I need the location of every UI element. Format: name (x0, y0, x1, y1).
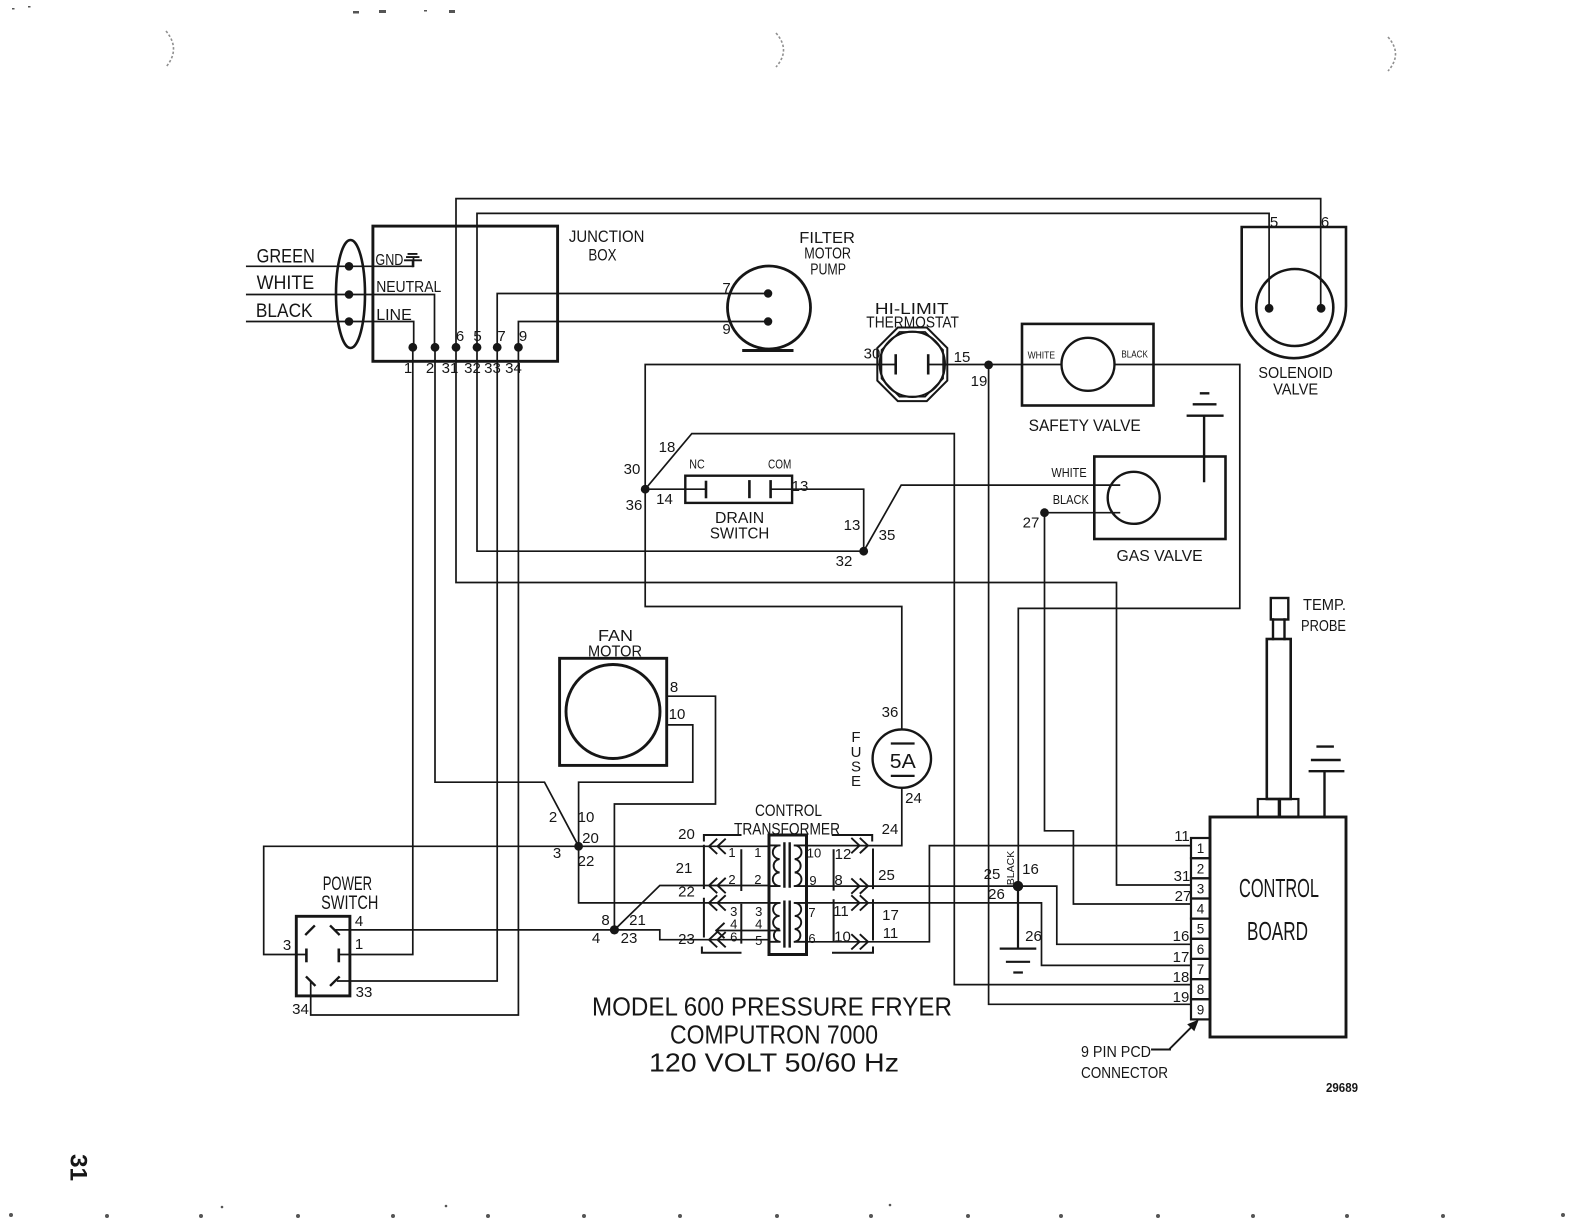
svg-text:WHITE: WHITE (1051, 466, 1086, 480)
svg-text:25: 25 (878, 867, 895, 884)
svg-text:9: 9 (722, 321, 730, 338)
svg-text:33: 33 (484, 360, 501, 377)
chevrons wire 17 (852, 896, 868, 910)
svg-text:9: 9 (809, 873, 816, 888)
svg-text:CONNECTOR: CONNECTOR (1081, 1065, 1168, 1082)
connector bars left outer (703, 846, 705, 937)
svg-text:13: 13 (792, 478, 809, 495)
wire 25 (transformer pin 9 to node 16) (807, 885, 1019, 887)
svg-text:34: 34 (292, 1001, 309, 1018)
scan specks top (353, 11, 359, 14)
svg-text:BLACK: BLACK (1053, 493, 1090, 507)
terminal 1 (408, 343, 417, 352)
scan dots bottom row (9, 1213, 13, 1217)
svg-text:32: 32 (836, 553, 853, 570)
svg-text:COM: COM (768, 457, 791, 472)
svg-text:9 PIN PCD: 9 PIN PCD (1081, 1044, 1151, 1061)
svg-text:BLACK: BLACK (1121, 350, 1148, 361)
svg-text:22: 22 (578, 853, 595, 870)
chevrons wire 24 (852, 839, 868, 853)
svg-text:FAN: FAN (598, 628, 633, 645)
chevrons wire 20 (709, 839, 725, 853)
safety valve box (1022, 324, 1154, 406)
wire 27 (gas valve black to control board pin 4) (1045, 513, 1192, 904)
wire 32 (terminal 32 to node 32) (477, 347, 864, 551)
svg-text:10: 10 (578, 809, 595, 826)
fuse circle (873, 729, 931, 787)
svg-text:5: 5 (1197, 922, 1205, 937)
svg-text:1: 1 (355, 936, 363, 953)
node 27 (1040, 508, 1049, 517)
svg-text:MOTOR: MOTOR (804, 246, 851, 263)
wire green (cable to gnd) (247, 259, 414, 267)
power switch box (296, 916, 350, 996)
scan artifact arc 2 (776, 33, 784, 67)
svg-text:JUNCTION: JUNCTION (569, 228, 645, 246)
svg-text:CONTROL: CONTROL (1239, 873, 1319, 903)
hi-limit pin bar right (927, 356, 930, 374)
wire line (cable to terminal 1) (247, 321, 349, 323)
svg-text:DRAIN: DRAIN (715, 510, 764, 527)
connector bars left inner (740, 850, 742, 942)
svg-text:14: 14 (656, 491, 673, 508)
svg-text:16: 16 (1173, 928, 1190, 945)
svg-text:9: 9 (519, 328, 527, 345)
svg-text:30: 30 (624, 461, 641, 478)
control transformer core box (769, 835, 807, 955)
svg-text:16: 16 (1022, 861, 1039, 878)
svg-text:18: 18 (1173, 969, 1190, 986)
solenoid pin 6 (1317, 304, 1326, 313)
power switch contact top-left (306, 926, 314, 934)
svg-text:6: 6 (808, 931, 815, 946)
svg-text:4: 4 (1197, 902, 1205, 917)
transformer primary winding (bottom left) (769, 903, 780, 942)
transformer core laminations (784, 844, 789, 947)
svg-text:20: 20 (582, 830, 599, 847)
fan motor circle (566, 665, 660, 759)
svg-text:7: 7 (497, 328, 505, 345)
chevrons wire 23 (709, 933, 725, 947)
power switch contact mid-right (337, 950, 340, 961)
svg-text:22: 22 (678, 884, 695, 901)
svg-text:27: 27 (1175, 888, 1192, 905)
svg-text:PUMP: PUMP (810, 262, 846, 279)
svg-text:4: 4 (592, 930, 600, 947)
wire 36 (fuse to drain switch node) (645, 489, 902, 729)
temp probe tab left (1258, 799, 1279, 817)
wire 6 (terminal 31 to solenoid pin 6) (456, 199, 1321, 348)
hi-limit thermostat circle (880, 332, 945, 397)
power switch contact bottom-right (331, 977, 339, 985)
drain switch NC contact (705, 482, 708, 497)
wire 34 (terminal 34 to power switch) (311, 347, 519, 1015)
svg-text:5: 5 (473, 328, 481, 345)
svg-text:BOX: BOX (588, 246, 616, 264)
svg-text:24: 24 (882, 821, 899, 838)
svg-text:34: 34 (505, 360, 522, 377)
gas valve box (1094, 457, 1225, 540)
node 20 (574, 842, 583, 851)
svg-text:GAS VALVE: GAS VALVE (1117, 548, 1203, 565)
wire 17 (transformer pin 7 to control board pin 7) (807, 903, 1192, 966)
svg-text:THERMOSTAT: THERMOSTAT (866, 315, 959, 332)
wire 13 (drain switch COM to node 32) (771, 489, 864, 551)
svg-text:8: 8 (670, 679, 678, 696)
drain switch box (685, 476, 792, 503)
svg-text:7: 7 (808, 905, 815, 920)
svg-text:SOLENOID: SOLENOID (1258, 365, 1332, 382)
svg-text:6: 6 (1197, 942, 1205, 957)
svg-text:CONTROL: CONTROL (755, 802, 822, 820)
svg-text:5: 5 (755, 933, 762, 948)
svg-text:1: 1 (754, 845, 761, 860)
chevrons wire 21 (709, 879, 725, 893)
svg-text:2: 2 (728, 872, 735, 887)
svg-text:MOTOR: MOTOR (588, 644, 642, 661)
svg-text:1: 1 (1197, 841, 1205, 856)
svg-text:23: 23 (621, 930, 638, 947)
connector bracket top-right (833, 835, 872, 841)
svg-text:GND: GND (375, 252, 403, 269)
svg-text:BOARD: BOARD (1247, 916, 1308, 946)
transformer secondary winding (bottom right) (795, 903, 807, 942)
svg-text:NC: NC (689, 457, 705, 472)
solenoid valve coil circle (1256, 269, 1333, 346)
temp probe tab right (1280, 799, 1298, 817)
node 23 (8/21/4/23) (610, 925, 619, 934)
svg-text:SWITCH: SWITCH (710, 526, 769, 543)
node white (345, 290, 354, 299)
fuse element bars (892, 744, 914, 776)
filter motor pump (728, 266, 811, 349)
svg-text:10: 10 (669, 706, 686, 723)
temp probe cap (1271, 598, 1289, 620)
svg-text:19: 19 (1173, 989, 1190, 1006)
svg-text:30: 30 (864, 346, 881, 363)
svg-text:POWER: POWER (323, 874, 372, 895)
wire 15 (hi-limit to node 19 to safety valve) (946, 364, 1061, 366)
hi-limit pin bar left (894, 356, 897, 374)
svg-text:21: 21 (629, 912, 646, 929)
9 pin pcb connector cells (1191, 838, 1210, 858)
chevrons wire 22 (709, 896, 725, 910)
svg-text:10: 10 (807, 846, 821, 861)
wire 30 (hi-limit to node 30) (645, 365, 878, 490)
svg-text:8: 8 (834, 872, 842, 889)
transformer secondary winding (top right) (795, 845, 807, 886)
wire 22 (node 20 to transformer pin 3) (579, 846, 769, 903)
temp probe neck (1273, 620, 1285, 640)
connector bracket bottom-left (702, 948, 741, 953)
node 19 (984, 361, 993, 370)
wire safety valve output (black to node 16) (1018, 365, 1240, 887)
wire 7 (terminal 33 to pump pin 7) (497, 294, 768, 348)
svg-text:6: 6 (1321, 214, 1329, 231)
svg-text:BLACK: BLACK (1005, 851, 1017, 885)
svg-text:35: 35 (879, 527, 896, 544)
svg-text:10: 10 (834, 929, 851, 946)
wire 19 (node 19 to control board pin 9) (989, 365, 1191, 1004)
svg-text:SAFETY VALVE: SAFETY VALVE (1029, 417, 1141, 435)
terminal 33 (493, 343, 502, 352)
svg-text:2: 2 (754, 872, 761, 887)
svg-text:4: 4 (355, 913, 363, 930)
svg-text:WHITE: WHITE (257, 273, 315, 294)
wire 1 (terminal 1 down to power switch) (339, 347, 413, 954)
hi-limit internal leads (878, 364, 946, 366)
terminal 2 (431, 343, 440, 352)
svg-text:27: 27 (1023, 514, 1040, 531)
ground (temp probe) (1310, 747, 1343, 817)
node green (345, 262, 354, 271)
terminal 31 (452, 343, 461, 352)
svg-text:33: 33 (356, 984, 373, 1001)
svg-text:2: 2 (549, 809, 557, 826)
svg-text:17: 17 (882, 907, 899, 924)
svg-text:6: 6 (456, 328, 464, 345)
chevrons wire 25 (852, 879, 868, 893)
svg-text:31: 31 (65, 1154, 92, 1181)
svg-text:19: 19 (971, 373, 988, 390)
svg-text:NEUTRAL: NEUTRAL (376, 279, 441, 296)
svg-text:120 VOLT 50/60 Hz: 120 VOLT 50/60 Hz (649, 1048, 899, 1078)
svg-text:TEMP.: TEMP. (1303, 597, 1346, 614)
svg-text:13: 13 (844, 517, 861, 534)
svg-text:23: 23 (678, 931, 695, 948)
wire 10 (fan motor to node 20) (579, 725, 693, 846)
wire 21 (node 23 to transformer pin 2) (614, 886, 769, 930)
wire 31 (terminal 31 to control board pin 3) (456, 347, 1191, 885)
safety valve circle (1062, 338, 1115, 391)
svg-text:8: 8 (1197, 982, 1205, 997)
solenoid valve body (1242, 227, 1346, 358)
svg-text:32: 32 (464, 360, 481, 377)
wire 35 (node 32 to gas valve white) (864, 485, 1120, 551)
cable entry ellipse (336, 240, 365, 348)
terminal 32 (473, 343, 482, 352)
junction box (373, 226, 558, 361)
svg-text:5: 5 (1270, 214, 1278, 231)
hi-limit thermostat inner octagon (882, 332, 944, 397)
wire 9 (terminal 34 to pump pin 9) (518, 322, 768, 348)
svg-text:15: 15 (954, 349, 971, 366)
chevrons wire 11 (852, 935, 868, 949)
wire 16 (node 16 to control board pin 6) (1018, 886, 1191, 944)
svg-text:36: 36 (626, 497, 643, 514)
svg-text:11: 11 (833, 903, 849, 920)
power switch contact mid-left (305, 950, 308, 961)
svg-text:2: 2 (1197, 861, 1205, 876)
terminal 34 (514, 343, 523, 352)
svg-text:3: 3 (553, 845, 561, 862)
svg-text:5A: 5A (890, 751, 917, 773)
wire 20 (node 20 to transformer pin 1) (579, 845, 769, 847)
svg-text:21: 21 (676, 860, 693, 877)
wire 4 (power switch to node 23) (336, 929, 614, 931)
svg-text:COMPUTRON 7000: COMPUTRON 7000 (670, 1020, 878, 1050)
svg-text:26: 26 (988, 886, 1005, 903)
connector bracket bottom-right (833, 948, 873, 953)
svg-text:TRANSFORMER: TRANSFORMER (734, 821, 840, 839)
svg-text:PROBE: PROBE (1301, 618, 1346, 635)
svg-text:11: 11 (883, 925, 899, 942)
scan artifact arc 1 (166, 31, 174, 67)
svg-text:36: 36 (882, 704, 899, 721)
pump pin 7 (764, 289, 772, 297)
svg-text:6: 6 (730, 930, 737, 945)
svg-text:GREEN: GREEN (257, 247, 315, 268)
svg-text:26: 26 (1025, 928, 1042, 945)
svg-text:20: 20 (678, 826, 695, 843)
gas valve circle (1108, 472, 1160, 524)
svg-text:3: 3 (283, 937, 291, 954)
pump pin 9 (764, 317, 772, 325)
svg-text:1: 1 (404, 360, 412, 377)
svg-text:BLACK: BLACK (256, 301, 313, 322)
svg-text:4: 4 (755, 917, 762, 932)
wire 4 stub (transformer pin 4 tap) (716, 930, 779, 932)
svg-text:24: 24 (905, 790, 922, 807)
connector bracket top-left (704, 835, 741, 841)
svg-text:LINE: LINE (376, 307, 412, 324)
control board (1210, 817, 1346, 1037)
wire 2 (terminal 2 down to node 20) (435, 347, 579, 846)
svg-text:VALVE: VALVE (1273, 382, 1318, 399)
wire 23 (node 23 to transformer pin 5) (614, 930, 769, 940)
svg-text:WHITE: WHITE (1028, 350, 1056, 361)
ground (GND symbol in junction box) (405, 254, 421, 266)
svg-text:17: 17 (1173, 949, 1190, 966)
connector bars right outer (872, 850, 874, 940)
svg-text:25: 25 (984, 866, 1001, 883)
dash after 9 PIN PCD (1152, 1049, 1170, 1051)
node 16 (1013, 881, 1023, 891)
fan motor box (560, 658, 667, 765)
svg-text:7: 7 (722, 280, 730, 297)
scan artifact arc 3 (1388, 37, 1396, 71)
svg-text:11: 11 (1174, 828, 1190, 845)
wire 24 (transformer pin 10 to fuse) (807, 788, 902, 846)
drain switch plunger (748, 481, 751, 497)
svg-text:1: 1 (728, 845, 735, 860)
svg-text:8: 8 (601, 912, 609, 929)
node 32/35 (859, 547, 868, 556)
svg-text:7: 7 (1197, 962, 1205, 977)
temp probe body (1267, 639, 1291, 799)
wire 8 (fan motor to node 23) (614, 696, 715, 930)
ground (above gas valve) (1188, 393, 1223, 481)
svg-text:2: 2 (426, 360, 434, 377)
chevron wire 4 tap (716, 924, 724, 938)
pump ground bar (744, 349, 792, 352)
svg-text:9: 9 (1197, 1002, 1205, 1017)
svg-text:FILTER: FILTER (799, 230, 855, 247)
svg-text:3: 3 (1197, 881, 1205, 896)
arrow to 9 pin connector (1170, 1025, 1195, 1050)
drain switch COM contact (769, 481, 772, 497)
wire 14 (node 30/36 to drain switch NC) (645, 488, 706, 490)
wire 33 (terminal 33 to power switch) (338, 347, 498, 981)
svg-text:E: E (851, 773, 861, 790)
node black (345, 317, 354, 326)
wire gas valve black lead (1045, 512, 1120, 514)
power switch contact top-right (331, 926, 339, 934)
wire 5 (terminal 32 to solenoid pin 5) (477, 213, 1269, 347)
svg-text:SWITCH: SWITCH (321, 893, 378, 914)
wire 3 (node 20 to power switch) (264, 846, 579, 954)
svg-text:31: 31 (1174, 868, 1191, 885)
wire 11 (transformer pin 6 to control board pin 1) (807, 846, 1192, 942)
svg-text:31: 31 (442, 360, 459, 377)
connector bars right inner (833, 850, 835, 941)
svg-text:12: 12 (835, 846, 852, 863)
transformer primary winding (top left) (769, 845, 780, 886)
solenoid pin 5 (1265, 304, 1274, 313)
power switch contact bottom-left (307, 977, 315, 985)
wire 18 (drain switch node to control board pin 8) (645, 434, 1191, 985)
hi-limit thermostat octagon (877, 328, 947, 402)
wire neutral (cable to terminal 2) (247, 294, 349, 296)
svg-text:29689: 29689 (1326, 1081, 1358, 1095)
node 30/36 (641, 485, 650, 494)
svg-text:MODEL 600 PRESSURE FRYER: MODEL 600 PRESSURE FRYER (592, 992, 952, 1022)
svg-text:18: 18 (659, 439, 676, 456)
ground (node 16) (1001, 886, 1035, 972)
